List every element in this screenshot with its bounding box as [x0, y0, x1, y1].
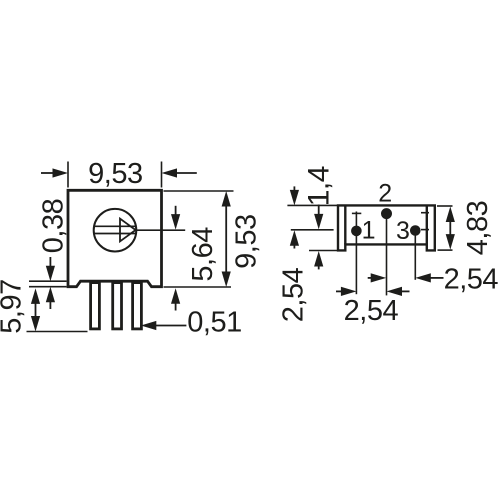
- pin 2 stem (right view): [386, 214, 388, 295]
- dimension 1,4: down arrow: [314, 205, 323, 230]
- svg-text:2,54: 2,54: [278, 267, 310, 322]
- dimension 9,53 right: bottom extension line: [164, 286, 232, 288]
- screw rotation arrow triangle: [120, 219, 136, 242]
- dimension 2,54 (pin1-pin2): arrows: [336, 287, 410, 296]
- tick on right flange line (pin 2 row): [421, 212, 429, 214]
- dimension 9,53 right: dimension line with arrows: [222, 191, 231, 287]
- dimension 2,54 (pin2-pin3): arrows: [368, 273, 444, 282]
- dimension 0,38: up arrow: [46, 287, 55, 309]
- dimension 4,83: bottom extension line: [438, 249, 453, 251]
- dimension 0,38: lower extension line: [29, 286, 67, 288]
- pin 2 (left view): [113, 283, 122, 329]
- svg-text:0,38: 0,38: [38, 199, 70, 253]
- pin 2 dot: [381, 208, 392, 219]
- dimension 9,53 top: right extension line: [161, 162, 163, 188]
- dimension 2,54 left: up arrow: [290, 230, 299, 248]
- dimension 1,4: up arrow: [314, 251, 323, 269]
- svg-text:4,83: 4,83: [462, 201, 494, 255]
- screw circle: [94, 209, 137, 252]
- dimension 9,53 top: left extension line: [67, 162, 69, 188]
- pin 1 stem (right view): [355, 212, 357, 295]
- left view body outline: [68, 190, 162, 286]
- svg-text:2,54: 2,54: [444, 263, 499, 295]
- dimension 0,51: arrow to pin 3: [141, 321, 187, 330]
- pin 3 dot: [410, 225, 421, 236]
- svg-text:2: 2: [378, 180, 392, 208]
- pin 1 dot: [351, 226, 362, 237]
- screw slot upper line: [94, 225, 135, 227]
- svg-text:9,53: 9,53: [88, 158, 142, 190]
- bottom extension line (foot): [309, 250, 340, 252]
- pin 3 (left view): [133, 283, 142, 329]
- dimension 4,83: double arrow: [446, 207, 455, 250]
- svg-text:1,4: 1,4: [302, 166, 335, 206]
- svg-text:5,97: 5,97: [0, 279, 28, 333]
- dimension 9,53 top: right arrow: [162, 168, 197, 177]
- svg-text:5,64: 5,64: [187, 227, 219, 282]
- svg-text:9,53: 9,53: [230, 214, 262, 268]
- middle extension line (pin row): [291, 229, 334, 231]
- dimension 9,53 right: top extension line: [164, 190, 234, 192]
- svg-text:2,54: 2,54: [344, 295, 399, 327]
- right view body outline: [338, 205, 435, 250]
- svg-text:0,51: 0,51: [187, 306, 241, 338]
- dimension 5,97: double arrow: [31, 288, 40, 331]
- pin 3 stem (right view): [414, 231, 416, 280]
- dimension 2,54 left: down arrow: [290, 186, 299, 205]
- pin 1 tick: [352, 212, 361, 214]
- svg-text:3: 3: [396, 217, 410, 245]
- pin 1 (left view): [91, 283, 100, 329]
- dimension 5,64: down arrow: [171, 206, 180, 230]
- dimension 0,38: down arrow: [46, 257, 55, 281]
- screw slot lower line: [94, 233, 135, 235]
- right view: top extension line (left): [287, 204, 338, 206]
- dimension 5,64: up arrow: [171, 288, 180, 310]
- dimension 9,53 top: left arrow: [41, 168, 68, 177]
- tick on right flange line (pin 1/3 row): [421, 229, 429, 231]
- dimension 4,83: top extension line: [437, 205, 453, 207]
- dimension 5,64: center extension line: [137, 229, 186, 231]
- dimension 0,38: upper extension line: [29, 280, 67, 282]
- svg-text:1: 1: [362, 217, 376, 245]
- dimension 5,97: pin tip line: [27, 331, 88, 333]
